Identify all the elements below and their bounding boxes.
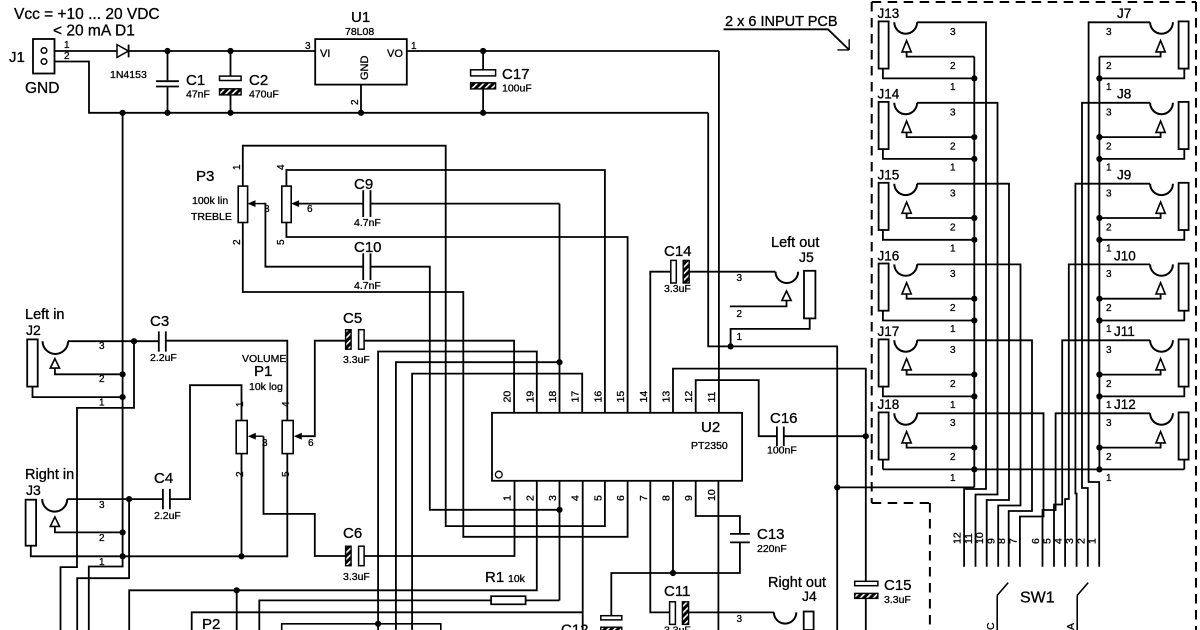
node J3 pin1 gnd <box>120 553 126 559</box>
svg-text:5: 5 <box>1042 538 1054 544</box>
J3 pin3 wire to C4 <box>67 498 163 500</box>
svg-text:10: 10 <box>706 489 718 501</box>
node J18 pin2 gnd <box>971 445 977 451</box>
J9 pin2 wire <box>1099 213 1160 218</box>
svg-text:2.2uF: 2.2uF <box>150 352 177 364</box>
svg-text:9: 9 <box>683 495 695 501</box>
J15 pin2 wire <box>907 213 975 218</box>
wire U2 pin3 to R1 <box>559 481 561 601</box>
svg-text:< 20 mA: < 20 mA <box>53 23 112 40</box>
node J5 pin1 gnd <box>728 343 734 349</box>
J10 pin1 wire <box>1099 311 1184 321</box>
node C2 top <box>227 48 233 54</box>
svg-text:J16: J16 <box>878 248 900 263</box>
connector J1 <box>33 39 55 74</box>
node U1 out C17 <box>480 48 486 54</box>
wire C4-node branch down to P2 area <box>77 499 129 630</box>
node J12 pin1 gnd <box>1096 466 1102 472</box>
J2 pin2 wire to gnd bus <box>55 368 123 374</box>
svg-text:4.7nF: 4.7nF <box>354 217 381 229</box>
node J14 pin1 gnd <box>971 156 977 162</box>
J2 pin3 wire to C3 <box>68 340 159 342</box>
P3 left section body <box>238 186 247 222</box>
svg-text:5: 5 <box>592 495 604 501</box>
svg-text:Vcc = +10 ... 20 VDC: Vcc = +10 ... 20 VDC <box>14 6 160 23</box>
wire branch down from pin2 wire <box>236 590 238 630</box>
svg-text:10: 10 <box>974 532 986 544</box>
svg-text:J9: J9 <box>1117 168 1131 183</box>
svg-text:3: 3 <box>1106 188 1112 199</box>
svg-text:TREBLE: TREBLE <box>191 211 232 223</box>
J13 pin3 wire to SW1 bundle <box>917 22 986 566</box>
svg-text:3.3uF: 3.3uF <box>343 354 370 366</box>
SW1 dashed border left <box>929 503 931 630</box>
wire P1 pin2 down to gnd line <box>241 454 243 557</box>
svg-text:J15: J15 <box>878 168 900 183</box>
svg-text:2.2uF: 2.2uF <box>154 510 181 522</box>
svg-text:P1: P1 <box>254 363 272 380</box>
svg-text:P2: P2 <box>202 616 220 630</box>
J9 pin3 wire to SW1 bundle <box>1075 184 1150 567</box>
svg-text:5: 5 <box>276 239 287 245</box>
svg-text:2: 2 <box>950 222 956 233</box>
svg-text:1: 1 <box>1106 400 1112 411</box>
jack J4 <box>804 612 814 630</box>
node gnd-U1 <box>358 110 364 116</box>
svg-text:C2: C2 <box>249 72 268 89</box>
wire C11 to J4 pin3 <box>689 611 774 613</box>
svg-text:1: 1 <box>232 164 243 170</box>
svg-text:2: 2 <box>1106 452 1112 463</box>
wire branch from P2 to C9/pin18 node <box>396 362 560 630</box>
gnd line J3 pin1 to P1 pin2/pin5 <box>123 454 288 557</box>
switch SW1 deck C <box>997 583 1008 596</box>
svg-text:1: 1 <box>1087 538 1099 544</box>
svg-text:2: 2 <box>950 379 956 390</box>
jack J2 <box>27 339 38 386</box>
svg-text:J17: J17 <box>878 324 900 339</box>
wire C6 to U2 pin1 <box>364 481 514 556</box>
svg-text:20: 20 <box>502 391 514 403</box>
svg-text:2: 2 <box>64 51 70 62</box>
svg-text:1: 1 <box>235 401 246 407</box>
wire U2 pin7 to C11 <box>650 481 669 613</box>
svg-text:1: 1 <box>950 82 956 93</box>
svg-text:1: 1 <box>64 40 70 51</box>
J14 pin1 wire <box>883 149 974 159</box>
wire U2 pin8 to C13 bottom line <box>672 481 674 573</box>
capacitor C3 <box>158 331 160 351</box>
svg-text:C1: C1 <box>186 72 205 89</box>
svg-text:J10: J10 <box>1114 248 1136 263</box>
svg-text:A: A <box>1065 623 1077 630</box>
svg-text:47nF: 47nF <box>186 89 210 101</box>
wire J1 pin2 to ground rail <box>55 62 709 113</box>
svg-text:3: 3 <box>1106 107 1112 118</box>
Vcc vertical to U2 pin11 <box>718 51 720 413</box>
svg-text:3: 3 <box>1106 27 1112 38</box>
svg-text:C6: C6 <box>343 525 362 542</box>
wire C3 to P1 pin4 <box>166 341 287 421</box>
svg-text:C17: C17 <box>502 66 530 83</box>
node J11 pin1 gnd <box>1096 393 1102 399</box>
svg-text:1: 1 <box>502 495 514 501</box>
node J18 pin1 gnd <box>971 466 977 472</box>
wire P1 left wiper to C6 <box>264 436 346 556</box>
wire U2 pin4 down <box>582 481 584 630</box>
wire P3 pin1 to U2 pin5 <box>243 146 605 526</box>
capacitor C6 (3.3uF polarized) <box>346 546 352 566</box>
svg-text:78L08: 78L08 <box>345 26 374 38</box>
svg-text:1: 1 <box>950 400 956 411</box>
svg-text:U1: U1 <box>351 9 370 26</box>
svg-text:GND: GND <box>25 80 59 97</box>
svg-text:10k log: 10k log <box>249 381 283 393</box>
wire C13 bottom to C12 <box>611 542 740 615</box>
svg-text:4.7nF: 4.7nF <box>354 280 381 292</box>
capacitor C14 (3.3uF polarized) <box>671 260 677 283</box>
svg-text:1: 1 <box>1106 324 1112 335</box>
svg-text:1: 1 <box>950 162 956 173</box>
svg-text:2: 2 <box>737 309 743 320</box>
svg-text:4: 4 <box>276 164 287 170</box>
svg-text:3: 3 <box>547 495 559 501</box>
svg-text:C11: C11 <box>664 583 690 600</box>
svg-text:D1: D1 <box>115 23 135 40</box>
svg-text:3: 3 <box>1106 345 1112 356</box>
wire C3-node branch down to P2 area <box>61 341 135 630</box>
P1 left wiper arrow <box>254 435 264 437</box>
svg-text:C3: C3 <box>150 313 169 330</box>
resistor R1 <box>491 596 525 604</box>
svg-text:J18: J18 <box>878 397 900 412</box>
node pin19 branch on P2 rect <box>375 621 381 627</box>
node U2 pin3 junction <box>556 507 562 513</box>
svg-text:2: 2 <box>1106 61 1112 72</box>
node J15 pin2 gnd <box>971 215 977 221</box>
svg-text:2: 2 <box>99 374 105 385</box>
input PCB dashed border right <box>1195 2 1197 630</box>
svg-text:1: 1 <box>99 398 105 409</box>
capacitor C9 <box>362 190 364 217</box>
wire P3 pin5 to U2 pin15 <box>286 223 627 413</box>
svg-text:10k: 10k <box>508 573 526 585</box>
right gnd bus of input PCB <box>1098 57 1100 470</box>
P1 right section body <box>282 421 293 454</box>
svg-text:100uF: 100uF <box>502 83 532 95</box>
svg-text:J1: J1 <box>9 49 25 66</box>
gnd wire into input pcb <box>837 486 974 488</box>
svg-text:C13: C13 <box>757 526 785 543</box>
node C9 line / pin18 branch <box>556 359 562 365</box>
J16 pin3 wire to SW1 bundle <box>917 264 1020 566</box>
svg-text:3: 3 <box>950 345 956 356</box>
node J10 pin1 gnd <box>1096 317 1102 323</box>
jack J5 <box>804 271 815 319</box>
capacitor C13 <box>730 533 750 535</box>
J7 pin1 wire <box>1099 69 1184 79</box>
node J17 pin1 gnd <box>971 393 977 399</box>
svg-text:C9: C9 <box>354 176 373 193</box>
gnd wire right section <box>708 113 837 630</box>
node J14 pin2 gnd <box>971 134 977 140</box>
J16 pin1 wire <box>883 311 974 321</box>
J11 pin1 wire <box>1099 387 1184 397</box>
svg-text:14: 14 <box>638 391 650 403</box>
svg-text:J12: J12 <box>1114 397 1136 412</box>
svg-text:8: 8 <box>996 538 1008 544</box>
wire U2 pin10 down <box>717 481 719 630</box>
svg-text:19: 19 <box>524 391 536 403</box>
capacitor C5 (3.3uF polarized) <box>346 330 352 350</box>
wire U1 gnd pin <box>360 85 362 113</box>
J12 pin3 wire to SW1 bundle <box>1043 413 1151 566</box>
svg-text:470uF: 470uF <box>249 89 279 101</box>
wire D1 to U1 input (Vcc rail) <box>129 50 316 52</box>
node J9 pin2 gnd <box>1096 215 1102 221</box>
node J11 pin2 gnd <box>1096 372 1102 378</box>
svg-text:4: 4 <box>281 401 292 407</box>
svg-text:Right out: Right out <box>768 575 826 591</box>
svg-text:13: 13 <box>661 391 673 403</box>
gnd bus from top rail down left side <box>89 113 123 630</box>
svg-text:2: 2 <box>524 495 536 501</box>
svg-text:Right in: Right in <box>25 467 74 483</box>
svg-text:2: 2 <box>950 452 956 463</box>
C15 bottom stem <box>865 598 867 630</box>
regulator U1 <box>315 39 407 85</box>
svg-text:C12: C12 <box>561 622 589 630</box>
J17 pin1 wire <box>883 387 974 397</box>
svg-text:2: 2 <box>1106 379 1112 390</box>
J11 pin2 wire <box>1099 370 1160 375</box>
svg-text:6: 6 <box>1030 538 1042 544</box>
node C3 input branch <box>131 338 137 344</box>
svg-text:12: 12 <box>683 391 695 403</box>
svg-text:3: 3 <box>950 418 956 429</box>
P2 pot outline partial <box>282 624 441 630</box>
wire U2 pin2 to P2 <box>129 481 537 630</box>
svg-text:2: 2 <box>235 471 246 477</box>
J12 pin1 wire <box>1183 460 1185 470</box>
node D1-C1 <box>164 48 170 54</box>
J3 pin2 wire <box>55 526 123 532</box>
node J3 pin2 gnd <box>120 529 126 535</box>
P3 right wiper arrow <box>296 203 298 205</box>
svg-text:GND: GND <box>359 56 371 81</box>
svg-text:PT2350: PT2350 <box>691 440 728 452</box>
node P1 pin2 gnd <box>238 553 244 559</box>
svg-text:3: 3 <box>737 273 743 284</box>
wire U2 pin19 from P2 network <box>378 352 537 630</box>
J14 pin2 wire <box>907 132 975 137</box>
diode D1 <box>117 45 128 58</box>
svg-text:15: 15 <box>615 391 627 403</box>
svg-text:3.3uF: 3.3uF <box>664 283 691 295</box>
capacitor C10 <box>362 253 364 280</box>
wire U2 pin9 to C13 <box>696 481 740 533</box>
svg-text:J11: J11 <box>1114 324 1135 339</box>
J18 pin3 wire to SW1 bundle <box>917 413 1043 566</box>
svg-text:J3: J3 <box>26 482 41 498</box>
svg-text:J7: J7 <box>1117 6 1131 21</box>
svg-text:R1: R1 <box>485 569 504 586</box>
svg-text:C10: C10 <box>354 239 382 256</box>
svg-text:C16: C16 <box>770 410 798 427</box>
wire C16 to junction <box>784 435 866 437</box>
svg-text:1: 1 <box>737 332 743 343</box>
svg-text:2: 2 <box>232 239 243 245</box>
svg-text:3: 3 <box>950 188 956 199</box>
svg-text:3: 3 <box>99 341 105 352</box>
J9 pin1 wire <box>1099 230 1184 240</box>
svg-text:1: 1 <box>1106 82 1112 93</box>
jack J3 <box>26 500 36 546</box>
node gnd to input pcb <box>834 484 840 490</box>
svg-text:2: 2 <box>950 303 956 314</box>
svg-text:7: 7 <box>638 495 650 501</box>
svg-text:3: 3 <box>305 41 311 52</box>
wire C4 to P1 pin1 <box>170 385 242 499</box>
J7 pin3 wire to SW1 bundle <box>1089 22 1151 566</box>
node J13 pin1 gnd <box>971 75 977 81</box>
svg-text:C4: C4 <box>154 470 173 487</box>
node J12 pin2 gnd <box>1096 445 1102 451</box>
J5 pin1 wire to gnd <box>731 318 810 346</box>
capacitor C4 <box>162 489 164 509</box>
J12 pin2 wire <box>1099 443 1160 448</box>
svg-text:C15: C15 <box>884 577 912 594</box>
svg-text:2: 2 <box>1106 141 1112 152</box>
svg-text:3: 3 <box>950 107 956 118</box>
J15 pin3 wire to SW1 bundle <box>917 184 1009 567</box>
svg-text:C14: C14 <box>664 243 692 260</box>
svg-text:SW1: SW1 <box>1020 590 1055 607</box>
J15 pin1 wire <box>883 230 974 240</box>
J16 pin2 wire <box>907 294 975 299</box>
node J10 pin2 gnd <box>1096 296 1102 302</box>
svg-text:3: 3 <box>737 614 743 625</box>
node J15 pin1 gnd <box>971 237 977 243</box>
node C4 input branch <box>126 496 132 502</box>
node J9 pin1 gnd <box>1096 237 1102 243</box>
svg-text:7: 7 <box>1007 538 1019 544</box>
svg-text:J5: J5 <box>799 249 814 265</box>
svg-text:1N4153: 1N4153 <box>110 69 147 81</box>
P3 right section body <box>282 186 291 222</box>
svg-text:2 x 6 INPUT PCB: 2 x 6 INPUT PCB <box>725 14 838 30</box>
svg-text:18: 18 <box>547 391 559 403</box>
long wire to P2 at y612 <box>192 612 583 630</box>
capacitor C11 (3.3uF polarized) <box>670 602 676 625</box>
node J17 pin2 gnd <box>971 372 977 378</box>
capacitor C1 <box>167 51 169 80</box>
J8 pin3 wire to SW1 bundle <box>1082 103 1150 567</box>
svg-text:11: 11 <box>963 533 975 544</box>
node J16 pin1 gnd <box>971 317 977 323</box>
svg-text:2: 2 <box>1075 538 1087 544</box>
wire P3 wiper6 through C9 to U2 pin18 <box>298 203 363 205</box>
node J8 pin2 gnd <box>1096 134 1102 140</box>
svg-text:VI: VI <box>320 48 330 60</box>
node gnd-C2 <box>227 110 233 116</box>
svg-text:J4: J4 <box>802 588 817 604</box>
J11 pin3 wire to SW1 bundle <box>1054 340 1150 566</box>
P1 left section body <box>236 421 247 454</box>
svg-text:11: 11 <box>706 391 718 402</box>
svg-text:VO: VO <box>387 48 403 60</box>
R1 left wire down to P2 <box>259 600 491 630</box>
wire U2 pin17 from P2 network <box>412 374 582 630</box>
J14 pin3 wire to SW1 bundle <box>917 103 997 567</box>
capacitor C12 (electrolytic) <box>601 616 622 620</box>
J10 pin3 wire to SW1 bundle <box>1065 264 1150 566</box>
U2 pin1 marker circle <box>495 471 502 478</box>
wire P1 right wiper up to C5 line <box>302 341 346 437</box>
svg-text:2: 2 <box>1106 303 1112 314</box>
svg-text:3.3uF: 3.3uF <box>884 594 911 606</box>
node C16 right <box>863 433 869 439</box>
J13 pin1 wire <box>883 69 974 79</box>
wire J1 pin1 to D1 <box>55 50 118 52</box>
svg-text:6: 6 <box>615 495 627 501</box>
P3 left wiper arrow <box>253 203 264 205</box>
svg-text:1: 1 <box>1106 162 1112 173</box>
node gnd-J2bus <box>120 110 126 116</box>
svg-text:J2: J2 <box>26 322 41 338</box>
svg-text:17: 17 <box>570 391 582 403</box>
J5 pin2 stub <box>730 301 787 307</box>
svg-text:1: 1 <box>99 557 105 568</box>
node gnd-C1 <box>164 110 170 116</box>
capacitor C17 (electrolytic) <box>482 51 484 70</box>
J2 pin1 wire to gnd bus <box>33 387 123 398</box>
J10 pin2 wire <box>1099 294 1160 299</box>
svg-text:6: 6 <box>308 438 314 449</box>
capacitor C16 <box>776 427 778 447</box>
svg-text:1: 1 <box>950 473 956 484</box>
wire P3 pin4 to U2 pin16 <box>286 170 605 413</box>
left gnd bus of input PCB <box>973 57 975 488</box>
svg-text:1: 1 <box>1106 473 1112 484</box>
J8 pin2 wire <box>1099 132 1160 137</box>
svg-text:U2: U2 <box>701 419 720 436</box>
J17 pin3 wire to SW1 bundle <box>917 340 1032 566</box>
svg-text:3: 3 <box>1106 269 1112 280</box>
svg-text:J14: J14 <box>878 87 900 102</box>
svg-text:C: C <box>985 622 997 630</box>
svg-text:4: 4 <box>570 495 582 501</box>
node J2 pin2 gnd <box>120 371 126 377</box>
svg-text:3: 3 <box>1064 538 1076 544</box>
P1 right wiper arrow <box>300 435 302 437</box>
svg-text:Left in: Left in <box>25 307 65 323</box>
wire U2 pin14 to C14 <box>650 272 671 413</box>
switch SW1 deck A <box>1077 583 1088 596</box>
input PCB dashed border top <box>872 1 1196 3</box>
svg-text:3: 3 <box>950 269 956 280</box>
input PCB dashed border left <box>871 2 873 503</box>
wire C5 to U2 pin20 <box>364 341 514 413</box>
node J7 pin1 gnd <box>1096 75 1102 81</box>
svg-text:2: 2 <box>99 533 105 544</box>
svg-text:6: 6 <box>307 204 313 215</box>
svg-text:2: 2 <box>950 61 956 72</box>
J3 pin1 wire <box>31 546 123 557</box>
svg-text:2: 2 <box>950 141 956 152</box>
svg-text:C5: C5 <box>343 310 362 327</box>
wire U2 pin12 to C16 <box>696 380 777 436</box>
